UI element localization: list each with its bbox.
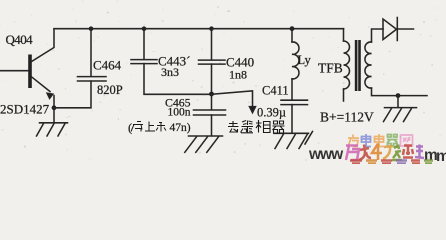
watermark row 1: 广电电器网 — [348, 134, 413, 147]
node rail-C464 — [89, 26, 94, 31]
wire collector lead — [32, 29, 55, 62]
transformer TFB secondary winding — [365, 42, 372, 88]
wire base lead of Q404 — [0, 70, 28, 72]
wire C443 top lead — [143, 29, 145, 60]
wire TFB primary bottom lead (B+) — [343, 89, 345, 101]
wire emitter to C464 bottom — [54, 81, 91, 108]
wire B+ node to ground — [397, 96, 399, 107]
wire Ly top lead — [291, 29, 293, 42]
wire C440 bottom lead — [211, 64, 213, 94]
node rail-C440 — [209, 26, 214, 31]
ground (emitter) — [37, 123, 68, 136]
wire TFB secondary bottom lead — [372, 88, 428, 96]
svg-text:820P: 820P — [97, 83, 123, 97]
capacitor C465 — [194, 110, 226, 115]
wire TFB primary top lead — [343, 29, 345, 41]
diode D (EHT rectifier) — [383, 19, 397, 40]
svg-text:m: m — [436, 148, 446, 164]
svg-text:B+=112V: B+=112V — [320, 110, 374, 125]
wire C440 top lead — [211, 29, 213, 60]
node rail-Ly — [290, 26, 295, 31]
node B+ junction — [396, 93, 401, 98]
inductor Ly — [292, 42, 299, 79]
svg-text:100n: 100n — [168, 107, 191, 119]
wire emitter to ground — [53, 108, 55, 123]
wire to phase detector arrow — [212, 91, 253, 107]
svg-text:www: www — [308, 146, 344, 163]
ground (C411) — [274, 132, 313, 149]
label 去鉴相器 — [228, 120, 285, 133]
wire C443 bottom lead — [144, 64, 212, 95]
svg-text:Q404: Q404 — [6, 32, 34, 47]
wire Ly to C411 — [291, 79, 293, 100]
wire C465 bottom lead — [211, 115, 213, 136]
transformer TFB primary winding — [344, 41, 350, 89]
svg-text:2SD1427: 2SD1427 — [0, 102, 50, 117]
wire emitter lead — [32, 77, 51, 92]
svg-text:(: ( — [128, 121, 132, 135]
ground (C465) — [185, 136, 223, 152]
svg-text:C411: C411 — [262, 84, 289, 98]
svg-text:C464: C464 — [93, 58, 122, 73]
transformer TFB core — [355, 40, 358, 91]
svg-text:47n): 47n) — [170, 122, 191, 134]
wire C411 bottom lead — [291, 105, 293, 133]
wire diode cathode stub — [397, 28, 413, 30]
transistor Q2SD1427 base bar — [28, 55, 32, 89]
wire top rail — [54, 28, 344, 30]
node bottom net junction — [209, 92, 214, 97]
svg-text:1n8: 1n8 — [229, 68, 247, 82]
watermark row 3 (cut off at bottom edge) — [350, 161, 433, 164]
svg-text:3n3: 3n3 — [161, 65, 179, 79]
ground (B+ node) — [384, 108, 417, 122]
svg-text:0.39µ: 0.39µ — [257, 106, 286, 120]
capacitor C411 — [281, 100, 308, 104]
scan speckle noise — [0, 1, 441, 162]
node emitter junction — [52, 105, 57, 110]
label (图上标47n) — [128, 121, 191, 135]
wire C465 top lead — [211, 94, 213, 109]
capacitor C464 — [78, 77, 107, 81]
node rail-C443 — [142, 26, 147, 31]
wire TFB secondary top lead — [372, 29, 384, 42]
capacitor C443 — [131, 60, 157, 64]
svg-text:Ly: Ly — [298, 53, 312, 67]
svg-text:TFB: TFB — [318, 61, 343, 76]
watermark row 2: www...com — [308, 144, 446, 166]
wire C464 top lead — [90, 29, 92, 77]
capacitor C440 — [199, 60, 226, 64]
